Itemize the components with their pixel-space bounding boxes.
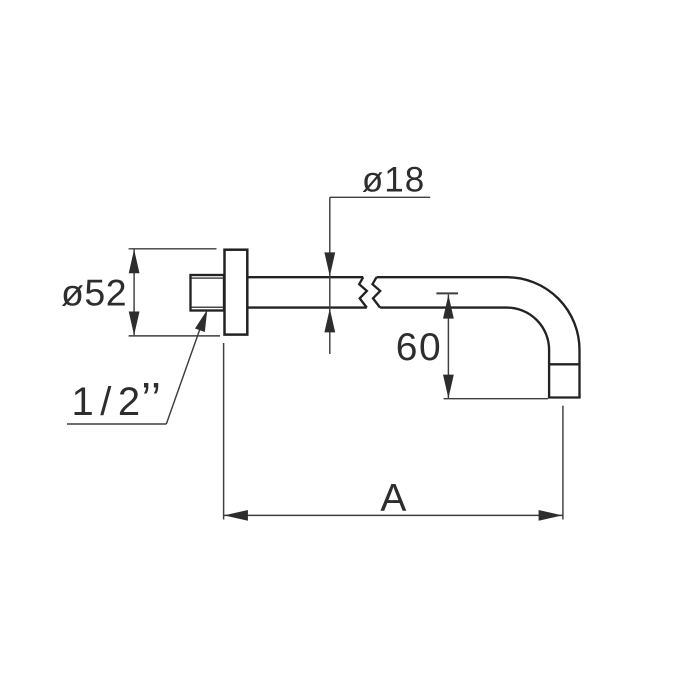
tube left segment (248, 277, 367, 307)
break zigzag right (373, 277, 381, 307)
thread crest lines (192, 278, 224, 307)
dim A arrow left (224, 510, 248, 521)
wall fitting thread body (191, 275, 225, 311)
dim 60 extension bottom (444, 398, 548, 400)
leader underline 1/2" (67, 423, 166, 425)
tube right segment with bend (377, 277, 580, 397)
dim ø18 vertical line (329, 197, 331, 354)
dim 60 arrow top (443, 295, 454, 319)
svg-text:1/2: 1/2 (72, 380, 147, 424)
dim A line (224, 514, 563, 516)
dim A extension right (562, 406, 564, 520)
dim ø18 shoulder line (330, 196, 430, 198)
leader slant line (166, 319, 203, 424)
outlet end cap (548, 364, 581, 397)
dim 60 center tick (436, 292, 458, 294)
svg-text:ø52: ø52 (61, 272, 127, 314)
dim ø18 arrow top (324, 252, 335, 276)
dim A extension left (223, 343, 225, 520)
svg-text:ø18: ø18 (362, 160, 425, 199)
dim ø18 arrow bottom (324, 309, 335, 333)
dim ø52 arrow top (129, 249, 140, 273)
break zigzag left (359, 277, 367, 307)
svg-text:60: 60 (396, 326, 442, 369)
dim 60 vertical line (447, 294, 449, 398)
svg-text:’’: ’’ (141, 373, 162, 425)
dim ø52 arrow bottom (129, 312, 140, 336)
dim ø52 extension top (129, 248, 217, 250)
dim 60 arrow bottom (443, 375, 454, 399)
dim A arrow right (539, 510, 563, 521)
dim ø52 extension bottom (129, 335, 220, 337)
flange escutcheon (225, 250, 248, 335)
svg-text:A: A (380, 477, 406, 520)
leader arrowhead (195, 310, 207, 332)
dim ø52 vertical line (133, 250, 135, 336)
